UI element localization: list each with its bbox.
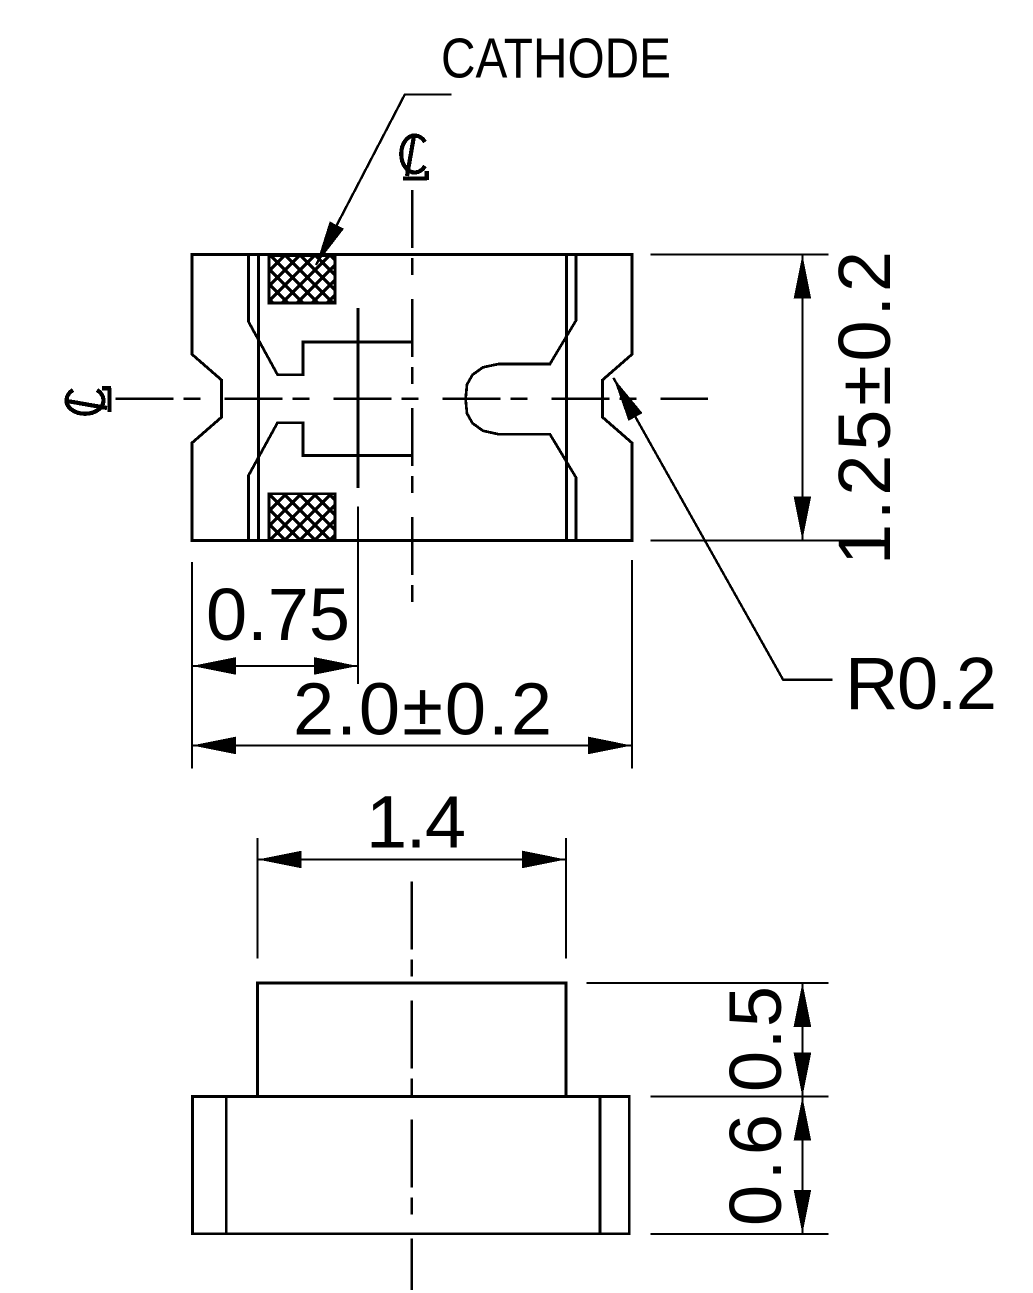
svg-text:1.25±0.2: 1.25±0.2 xyxy=(823,251,906,565)
svg-text:1.4: 1.4 xyxy=(366,780,466,863)
vertical centerline top view xyxy=(411,190,414,607)
dim 1.4 arrow right xyxy=(522,851,566,869)
dim 2.0 arrow left xyxy=(192,737,236,755)
dim 0.5 arrow bottom xyxy=(794,1053,812,1097)
dim 2.0 line xyxy=(192,745,632,747)
dim 1.25 arrow bottom xyxy=(794,496,812,540)
side view lens box xyxy=(258,983,566,1097)
R0.2 leader xyxy=(613,378,832,680)
dim 0.5 line xyxy=(801,983,803,1097)
dim 0.75 arrow right xyxy=(314,657,358,675)
cathode mark hatch top xyxy=(269,256,335,303)
svg-text:0.5: 0.5 xyxy=(714,986,797,1092)
side view centerline xyxy=(410,881,413,1290)
horizontal centerline xyxy=(116,397,709,400)
dim 0.5/0.6 extension middle xyxy=(650,1096,828,1098)
anode lead outline xyxy=(466,255,576,541)
cathode lead outline lower xyxy=(249,423,412,541)
dim 0.6 extension bottom xyxy=(650,1233,828,1235)
dim 1.25 extension bottom xyxy=(650,539,881,541)
cathode mark hatch bottom xyxy=(269,494,335,541)
dim 1.4 line xyxy=(258,859,566,861)
CATHODE leader arrowhead xyxy=(316,221,344,265)
centerline symbol left xyxy=(67,388,112,414)
cathode lead outline upper xyxy=(249,255,412,375)
top view package outline with side notches xyxy=(192,255,632,541)
dim 0.75 line xyxy=(192,665,358,667)
dim 0.6 arrow bottom xyxy=(794,1190,812,1234)
svg-text:R0.2: R0.2 xyxy=(845,642,997,725)
left terminal inner edge xyxy=(257,255,260,541)
dim 0.6 arrow top xyxy=(794,1097,812,1141)
centerline symbol top xyxy=(401,136,427,181)
dim 1.25 extension top xyxy=(650,254,828,256)
CATHODE leader xyxy=(316,95,452,266)
svg-text:2.0±0.2: 2.0±0.2 xyxy=(293,668,552,751)
dim 0.5 arrow top xyxy=(794,983,812,1027)
dim 2.0 extension left xyxy=(191,562,193,769)
svg-text:CATHODE: CATHODE xyxy=(441,27,671,91)
side view left terminal line xyxy=(225,1096,228,1233)
side view body box xyxy=(193,1096,630,1233)
dim 1.25 line xyxy=(801,255,803,541)
right terminal inner edge xyxy=(565,255,568,541)
dim 0.6 line xyxy=(801,1097,803,1234)
die pad vertical edge xyxy=(357,308,360,488)
dim 0.75 extension xyxy=(357,507,359,684)
svg-text:0.75: 0.75 xyxy=(206,573,350,656)
dim 1.4 arrow left xyxy=(258,851,302,869)
svg-text:0.6: 0.6 xyxy=(714,1114,797,1226)
dim 0.75 arrow left xyxy=(192,657,236,675)
dim 1.4 extension right xyxy=(565,838,567,959)
dim 2.0 extension right xyxy=(631,560,633,768)
dim 1.4 extension left xyxy=(257,838,259,959)
side view right terminal line xyxy=(599,1096,602,1233)
dim 2.0 arrow right xyxy=(588,737,632,755)
dim 0.5 extension top xyxy=(587,982,829,984)
R0.2 leader arrowhead xyxy=(613,378,642,421)
dim 1.25 arrow top xyxy=(794,255,812,299)
